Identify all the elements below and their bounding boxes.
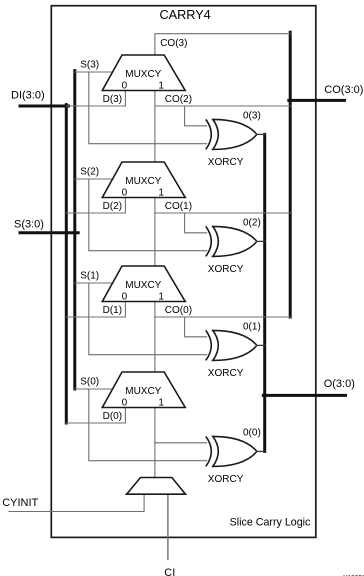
- svg-text:CO(3:0): CO(3:0): [324, 84, 363, 96]
- svg-text:S(1): S(1): [80, 271, 99, 282]
- wire S(1) branch down to XORCY input: [89, 283, 207, 355]
- wire O(3) XOR output to O bus: [256, 133, 264, 135]
- wire D(0) from DI bus to MUXCY 0-input: [66, 408, 125, 424]
- svg-text:0: 0: [122, 397, 128, 408]
- svg-text:CO(0): CO(0): [165, 305, 192, 316]
- svg-text:XORCY: XORCY: [208, 157, 244, 168]
- wire CYINIT from left to init-mux 0-input: [9, 494, 144, 511]
- svg-text:1: 1: [158, 187, 164, 198]
- svg-text:CI: CI: [164, 567, 175, 576]
- bus wire: S vertical distribution: [73, 71, 76, 389]
- svg-text:MUXCY: MUXCY: [125, 386, 161, 397]
- svg-text:0(1): 0(1): [243, 321, 261, 332]
- input bus DI(3:0) entry stub: [20, 105, 68, 108]
- svg-text:XORCY: XORCY: [208, 368, 244, 379]
- wire CO(3): MUXCY stage-3 output riser to CO bus: [155, 34, 290, 55]
- wire carry chain riser below MUXCY stage: [154, 302, 156, 373]
- svg-text:0: 0: [122, 187, 128, 198]
- svg-text:0: 0: [122, 291, 128, 302]
- bus wire: O collector vertical: [263, 134, 266, 451]
- svg-text:D(0): D(0): [103, 411, 122, 422]
- svg-text:MUXCY: MUXCY: [125, 69, 161, 80]
- svg-text:1: 1: [158, 291, 164, 302]
- svg-text:S(2): S(2): [80, 167, 99, 178]
- xor gate XORCY stage 0: [206, 436, 257, 466]
- mux MUXCY stage 0 (trapezoid): [102, 372, 185, 408]
- xor gate XORCY stage 3: [206, 119, 257, 149]
- wire CO(2) carry tap to CO bus: [155, 105, 290, 107]
- xor gate XORCY stage 1: [206, 330, 257, 360]
- wire carry chain riser below MUXCY stage: [154, 198, 156, 267]
- wire S(3) select from S bus to MUXCY: [75, 71, 113, 73]
- svg-text:CYINIT: CYINIT: [2, 497, 38, 509]
- svg-text:D(3): D(3): [103, 94, 122, 105]
- svg-text:S(0): S(0): [80, 377, 99, 388]
- wire D(1) from DI bus to MUXCY 0-input: [66, 302, 125, 318]
- svg-text:O(3:0): O(3:0): [324, 378, 355, 390]
- bus wire: DI vertical distribution: [65, 105, 68, 423]
- output bus O(3:0) exit stub: [263, 394, 345, 397]
- wire D(2) from DI bus to MUXCY 0-input: [66, 198, 125, 214]
- input bus S(3:0) entry stub: [20, 231, 78, 234]
- wire O(0) XOR output to O bus: [256, 450, 264, 452]
- svg-text:0: 0: [122, 80, 128, 91]
- wire O(1) XOR output to O bus: [256, 344, 264, 346]
- svg-text:S(3): S(3): [80, 60, 99, 71]
- svg-text:CO(2): CO(2): [165, 94, 192, 105]
- wire S(0) select from S bus to MUXCY: [75, 388, 113, 390]
- svg-text:S(3:0): S(3:0): [14, 218, 44, 230]
- svg-text:MUXCY: MUXCY: [125, 280, 161, 291]
- wire S(2) branch down to XORCY input: [89, 179, 207, 251]
- wire S(1) select from S bus to MUXCY: [75, 282, 113, 284]
- svg-text:0(2): 0(2): [243, 217, 261, 228]
- svg-text:CARRY4: CARRY4: [159, 8, 210, 22]
- mux CYINIT/CI select (small trapezoid): [127, 478, 186, 495]
- svg-text:Slice Carry Logic: Slice Carry Logic: [230, 516, 311, 528]
- svg-text:D(1): D(1): [103, 305, 122, 316]
- wire O(2) XOR output to O bus: [256, 240, 264, 242]
- svg-text:XORCY: XORCY: [208, 474, 244, 485]
- output bus CO(3:0) exit stub: [289, 99, 345, 102]
- svg-text:CO(1): CO(1): [165, 201, 192, 212]
- svg-text:0(0): 0(0): [243, 427, 261, 438]
- wire carry branch to XORCY input: [185, 106, 207, 126]
- svg-text:XORCY: XORCY: [208, 264, 244, 275]
- svg-text:D(2): D(2): [103, 201, 122, 212]
- wire carry chain riser below MUXCY stage: [154, 91, 156, 163]
- wire carry chain riser below MUXCY stage: [154, 408, 156, 478]
- svg-text:1: 1: [158, 80, 164, 91]
- mux MUXCY stage 1 (trapezoid): [102, 266, 185, 302]
- svg-text:DI(3:0): DI(3:0): [11, 90, 45, 102]
- wire D(3) from DI bus to MUXCY 0-input: [66, 91, 125, 107]
- wire S(3) branch down to XORCY input: [89, 72, 207, 144]
- outer box: CARRY4 block outline: [51, 6, 316, 538]
- wire S(0) branch down to XORCY input: [89, 389, 207, 461]
- wire S(2) select from S bus to MUXCY: [75, 178, 113, 180]
- bus wire: CO collector vertical: [289, 32, 292, 317]
- mux MUXCY stage 2 (trapezoid): [102, 162, 185, 198]
- svg-text:0(3): 0(3): [243, 110, 261, 121]
- svg-text:MUXCY: MUXCY: [125, 176, 161, 187]
- mux MUXCY stage 3 (trapezoid): [102, 55, 185, 91]
- xor gate XORCY stage 2: [206, 226, 257, 256]
- wire CO(0) carry tap to CO bus: [155, 316, 290, 318]
- svg-text:1: 1: [158, 397, 164, 408]
- wire carry-in branch to XORCY input: [155, 442, 207, 444]
- wire carry branch to XORCY input: [185, 213, 207, 233]
- wire carry branch to XORCY input: [185, 317, 207, 337]
- wire CO(1) carry tap to CO bus: [155, 212, 290, 214]
- svg-text:CO(3): CO(3): [160, 38, 187, 49]
- wire CI riser from init-mux 1-input through box bottom: [167, 494, 169, 559]
